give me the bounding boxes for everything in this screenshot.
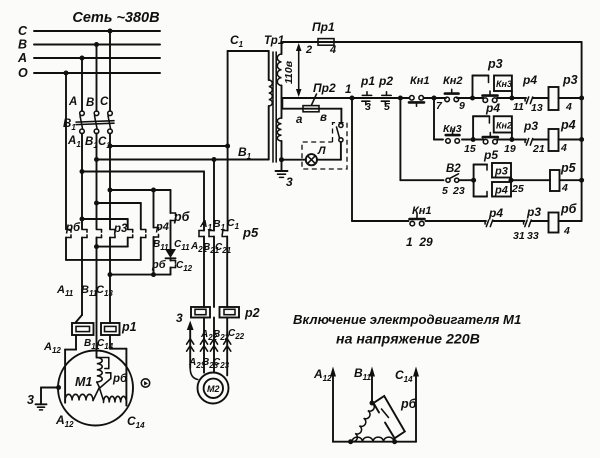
svg-text:рб: рб bbox=[65, 222, 81, 234]
svg-text:4: 4 bbox=[563, 225, 570, 237]
svg-text:3: 3 bbox=[176, 311, 183, 325]
svg-text:9: 9 bbox=[459, 100, 465, 112]
svg-text:Л: Л bbox=[317, 145, 326, 157]
svg-text:23: 23 bbox=[452, 185, 465, 197]
svg-text:р5: р5 bbox=[483, 148, 498, 162]
svg-text:р3: р3 bbox=[113, 223, 128, 235]
svg-text:Пр2: Пр2 bbox=[313, 81, 336, 95]
svg-text:В: В bbox=[86, 97, 94, 109]
svg-text:Кн1: Кн1 bbox=[410, 75, 430, 87]
svg-text:рб: рб bbox=[173, 210, 191, 224]
svg-text:19: 19 bbox=[504, 143, 516, 155]
svg-text:5: 5 bbox=[442, 185, 448, 197]
svg-text:4: 4 bbox=[560, 142, 567, 154]
svg-text:р3: р3 bbox=[562, 73, 578, 87]
svg-text:4: 4 bbox=[561, 182, 568, 194]
svg-text:5: 5 bbox=[384, 101, 390, 113]
svg-text:21: 21 bbox=[532, 143, 545, 155]
svg-text:Кн2: Кн2 bbox=[443, 75, 463, 87]
svg-text:р4: р4 bbox=[560, 118, 576, 132]
svg-text:31: 31 bbox=[513, 230, 525, 242]
svg-text:на напряжение 220В: на напряжение 220В bbox=[336, 332, 480, 348]
svg-text:110в: 110в bbox=[283, 60, 295, 84]
svg-text:а: а bbox=[296, 114, 303, 126]
svg-text:25: 25 bbox=[511, 183, 524, 195]
svg-text:р4: р4 bbox=[485, 101, 500, 115]
svg-text:р1: р1 bbox=[360, 74, 375, 88]
svg-text:в: в bbox=[320, 112, 327, 124]
svg-text:33: 33 bbox=[527, 230, 539, 242]
svg-text:Сеть ~380В: Сеть ~380В bbox=[72, 10, 159, 26]
svg-text:А: А bbox=[68, 96, 77, 108]
svg-text:Кн3: Кн3 bbox=[496, 79, 512, 89]
svg-text:В: В bbox=[18, 38, 27, 52]
svg-text:3: 3 bbox=[365, 101, 371, 113]
svg-text:р3: р3 bbox=[523, 119, 538, 133]
svg-text:13: 13 bbox=[531, 102, 543, 114]
svg-text:3: 3 bbox=[27, 393, 34, 407]
svg-text:р4: р4 bbox=[522, 73, 537, 87]
svg-text:О: О bbox=[18, 66, 28, 80]
svg-text:11: 11 bbox=[513, 101, 524, 113]
svg-text:р2: р2 bbox=[378, 74, 393, 88]
svg-text:3: 3 bbox=[286, 175, 293, 189]
svg-text:р5: р5 bbox=[560, 161, 577, 175]
svg-text:С: С bbox=[18, 24, 28, 38]
svg-text:С: С bbox=[100, 96, 109, 108]
svg-text:Кн1: Кн1 bbox=[412, 205, 432, 217]
svg-text:Пр1: Пр1 bbox=[312, 20, 335, 34]
svg-text:4: 4 bbox=[565, 101, 572, 113]
svg-text:рб: рб bbox=[560, 202, 578, 216]
svg-text:Включение электродвигателя М1: Включение электродвигателя М1 bbox=[293, 312, 521, 327]
svg-text:М1: М1 bbox=[75, 375, 92, 389]
svg-text:р4: р4 bbox=[488, 206, 503, 220]
svg-text:15: 15 bbox=[464, 143, 476, 155]
svg-text:рб: рб bbox=[400, 397, 418, 411]
svg-text:Кн3: Кн3 bbox=[443, 123, 462, 135]
svg-text:р2: р2 bbox=[244, 306, 260, 320]
svg-text:1 29: 1 29 bbox=[406, 235, 433, 249]
svg-text:А: А bbox=[17, 51, 27, 65]
svg-text:2: 2 bbox=[305, 44, 312, 56]
svg-text:р3: р3 bbox=[526, 205, 541, 219]
svg-text:рб: рб bbox=[112, 373, 128, 385]
svg-text:р1: р1 bbox=[121, 320, 137, 334]
svg-text:М2: М2 bbox=[207, 384, 220, 394]
svg-text:Кн2: Кн2 bbox=[496, 121, 512, 131]
svg-text:В2: В2 bbox=[446, 163, 461, 175]
svg-text:р5: р5 bbox=[242, 225, 259, 240]
svg-text:рб: рб bbox=[151, 259, 167, 271]
svg-text:р3: р3 bbox=[487, 57, 503, 71]
svg-text:р4: р4 bbox=[155, 221, 169, 233]
svg-text:р3: р3 bbox=[494, 166, 508, 178]
svg-text:1: 1 bbox=[345, 84, 351, 96]
svg-text:р4: р4 bbox=[494, 185, 508, 197]
